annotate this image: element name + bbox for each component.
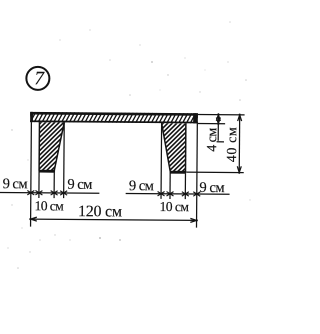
dimension line 120 cm: [31, 219, 197, 220]
extension line: right leg top-left corner: [160, 123, 163, 199]
extension line: leg bottom to 40 cm dimension: [186, 171, 243, 173]
right leg, hatched tapered cross-section: [102, 121, 242, 176]
svg-text:4 см: 4 см: [205, 128, 220, 152]
arrowheads of 4 cm dimension: [216, 113, 220, 124]
dimension line 40 cm (vertical): [238, 115, 240, 173]
svg-text:40 см: 40 см: [225, 127, 240, 162]
extension line: board bottom to 4 cm dimension: [198, 123, 225, 125]
dimension chain line 9/10/9 left piece: [0, 191, 99, 194]
svg-text:9 см: 9 см: [67, 177, 92, 193]
extension line: left leg bottom-left corner: [38, 172, 40, 197]
left leg, hatched tapered cross-section: [0, 120, 120, 175]
arrowheads of 40 cm dimension: [237, 114, 241, 174]
extension line: board right edge: [196, 123, 199, 227]
svg-text:10 см: 10 см: [35, 198, 65, 213]
svg-text:10 см: 10 см: [160, 199, 190, 214]
dimension chain line 9/10/9 right piece: [126, 192, 230, 195]
extension line: board left edge: [30, 122, 33, 226]
extension line: right leg bottom-left corner: [169, 173, 171, 198]
arrow x-marks on right 9/10/9 chain: [158, 191, 201, 196]
problem number badge: circled 7: [26, 67, 49, 90]
extension line: left leg bottom-right corner: [53, 173, 55, 198]
svg-text:9 см: 9 см: [129, 178, 154, 194]
dimension line 4 cm (vertical, with end tick): [217, 115, 225, 142]
svg-text:7: 7: [34, 68, 45, 89]
table top board, hatched cross-section (120 x 4 cm): [23, 112, 208, 124]
arrowheads of 120 cm dimension: [29, 217, 197, 222]
extension line: right leg bottom-right corner: [184, 174, 186, 199]
extension line: left leg top-right corner: [63, 122, 66, 198]
arrow x-marks on left 9/10/9 chain: [27, 190, 67, 195]
svg-text:120 см: 120 см: [78, 203, 122, 220]
svg-text:9 см: 9 см: [199, 180, 224, 196]
extension line: board top to 4/40 dimensions: [198, 114, 245, 116]
scan noise speckles: [7, 21, 250, 269]
svg-text:9 см: 9 см: [3, 176, 28, 192]
